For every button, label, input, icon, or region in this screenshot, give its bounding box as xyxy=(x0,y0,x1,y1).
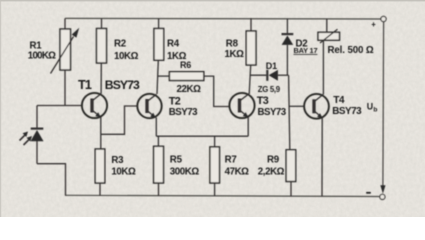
value label R1 xyxy=(28,51,56,62)
label D1 xyxy=(266,61,277,71)
wire T4 collector to relay xyxy=(322,40,324,94)
value label R6 xyxy=(177,84,202,95)
svg-text:Rel. 500 Ω: Rel. 500 Ω xyxy=(328,45,374,56)
resistor R3 xyxy=(95,149,105,196)
wire T4 base wire xyxy=(289,105,304,107)
svg-text:R2: R2 xyxy=(114,38,126,49)
photodiode light arrows xyxy=(20,132,33,146)
svg-text:2,2KΩ: 2,2KΩ xyxy=(258,167,285,178)
svg-text:R6: R6 xyxy=(180,60,191,70)
value label R2 xyxy=(114,51,139,62)
svg-text:R7: R7 xyxy=(225,155,237,166)
wire Ub arrowhead xyxy=(380,185,385,193)
value label BAY 17 xyxy=(294,46,318,55)
svg-text:BSY73: BSY73 xyxy=(169,107,198,118)
node plus terminal xyxy=(381,16,386,21)
svg-text:47KΩ: 47KΩ xyxy=(225,167,250,178)
wire ground rail left step xyxy=(37,164,66,196)
svg-text:300KΩ: 300KΩ xyxy=(170,167,200,178)
label minus sign xyxy=(366,192,371,194)
svg-text:R9: R9 xyxy=(267,155,280,166)
label zener value ZG 5,9 xyxy=(258,85,281,94)
svg-text:1KΩ: 1KΩ xyxy=(225,49,245,60)
label R3 xyxy=(111,155,124,166)
resistor R1 (potentiometer) xyxy=(51,18,80,105)
value label BSY73 (T2) xyxy=(169,107,198,118)
svg-text:+: + xyxy=(371,20,376,29)
photodiode xyxy=(31,106,44,164)
label R2 xyxy=(114,38,126,49)
value label BSY73 (T4) xyxy=(332,106,362,117)
diode D2 xyxy=(282,19,294,76)
label R5 xyxy=(170,155,183,166)
node minus terminal xyxy=(380,194,385,199)
wire D1 node to R9 and T4 base xyxy=(289,75,290,150)
resistor R8 xyxy=(246,18,256,94)
svg-text:BSY73: BSY73 xyxy=(105,78,140,92)
resistor R9 xyxy=(286,150,296,196)
value label R8 xyxy=(225,49,245,60)
svg-text:BAY 17: BAY 17 xyxy=(294,46,318,55)
label D2 xyxy=(296,38,308,49)
svg-text:ZG 5,9: ZG 5,9 xyxy=(258,85,281,94)
svg-text:10KΩ: 10KΩ xyxy=(111,167,136,178)
transistor T3 xyxy=(229,93,254,136)
svg-text:D1: D1 xyxy=(266,61,277,71)
transistor T2 xyxy=(137,94,161,136)
svg-text:10KΩ: 10KΩ xyxy=(114,51,139,62)
svg-text:R3: R3 xyxy=(111,155,124,166)
svg-text:b: b xyxy=(373,107,377,114)
svg-text:U: U xyxy=(367,101,373,111)
wire T1 emitter to T2 base coupling xyxy=(101,106,138,134)
svg-text:T3: T3 xyxy=(257,95,269,107)
transistor T1 xyxy=(82,93,107,149)
label R1 xyxy=(30,41,43,52)
label T2 xyxy=(169,95,181,107)
wire top supply rail xyxy=(65,17,381,20)
resistor R4 xyxy=(154,18,164,94)
resistor R5 xyxy=(154,136,164,196)
value label R5 xyxy=(170,167,200,178)
svg-text:R8: R8 xyxy=(226,39,239,50)
svg-text:T4: T4 xyxy=(333,95,345,106)
value label R4 xyxy=(167,51,187,62)
svg-text:100KΩ: 100KΩ xyxy=(28,51,56,62)
wire Ub arrow line xyxy=(382,22,385,186)
svg-text:T1: T1 xyxy=(78,78,92,92)
resistor R7 xyxy=(210,136,220,196)
svg-text:22KΩ: 22KΩ xyxy=(177,84,202,95)
label R9 xyxy=(267,155,280,166)
wire common emitter rail xyxy=(156,135,248,137)
label Ub xyxy=(367,101,378,113)
resistor R6 xyxy=(158,72,230,107)
resistor R2 xyxy=(97,18,107,93)
svg-text:BSY73: BSY73 xyxy=(258,107,287,118)
relay Rel 500 ohm xyxy=(318,19,340,43)
label plus sign xyxy=(371,20,376,29)
value label R7 xyxy=(225,167,250,178)
label T3 xyxy=(257,95,269,107)
svg-text:T2: T2 xyxy=(169,95,181,107)
wire T1 base wire xyxy=(37,105,83,107)
value label R3 xyxy=(111,167,136,178)
label relay value xyxy=(328,45,374,56)
label R7 xyxy=(225,155,237,166)
value label R9 xyxy=(258,167,285,178)
svg-text:R4: R4 xyxy=(167,38,180,49)
wire bottom ground rail xyxy=(66,195,380,196)
value label BSY73 (T1) xyxy=(105,78,140,92)
svg-text:R5: R5 xyxy=(170,155,183,166)
transistor T4 xyxy=(304,94,329,196)
diode D1 xyxy=(250,70,288,81)
label T1 xyxy=(78,78,92,92)
label R4 xyxy=(167,38,180,49)
value label BSY73 (T3) xyxy=(258,107,287,118)
label R8 xyxy=(226,39,239,50)
label T4 xyxy=(333,95,345,106)
svg-text:BSY73: BSY73 xyxy=(332,106,362,117)
label R6 xyxy=(180,60,191,70)
